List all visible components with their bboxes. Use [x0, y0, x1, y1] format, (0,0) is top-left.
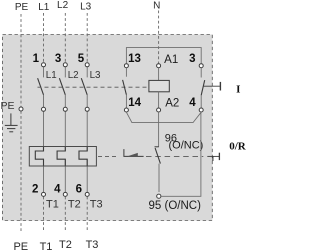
svg-text:A1: A1 [164, 54, 178, 66]
svg-text:4: 4 [54, 184, 61, 196]
overload heater element pole 1 [35, 147, 43, 166]
svg-text:L3: L3 [90, 70, 101, 81]
svg-text:L3: L3 [80, 2, 92, 13]
terminal circle 13 [124, 64, 128, 68]
wire T1 dashed tail [43, 197, 45, 232]
NC contact fixed hook [155, 146, 159, 148]
svg-text:3: 3 [189, 53, 195, 65]
terminal circle 4 (bottom) [63, 192, 67, 196]
terminal circle 3 (top) [63, 63, 67, 67]
breaker pole 3 wires [86, 67, 88, 192]
terminal circle 14 [124, 108, 128, 112]
contact 3-4 wires [200, 68, 202, 78]
junction circle pole2 [63, 107, 67, 111]
NC contact blade 95-96 [155, 148, 160, 164]
overload heater element pole 3 [79, 147, 87, 166]
coil U1 A1-A2 [158, 68, 160, 81]
svg-text:6: 6 [76, 184, 82, 196]
breaker pole 2 wires [64, 67, 66, 192]
wire 95 to contact 4 (L shape) [161, 112, 201, 196]
trip latch symbol [124, 149, 144, 156]
svg-text:5: 5 [78, 53, 85, 65]
junction circle pole1 [42, 107, 46, 111]
svg-text:0/R: 0/R [229, 140, 246, 152]
terminal circle A2 [157, 108, 161, 112]
svg-text:14: 14 [128, 97, 141, 109]
overload relay F1 box [29, 147, 96, 167]
ON actuator (I) link [204, 85, 220, 87]
terminal circle PE [19, 107, 23, 111]
svg-text:3: 3 [55, 53, 61, 65]
junction circle pole3 [85, 107, 89, 111]
terminal circle 4 [199, 108, 203, 112]
svg-text:T2: T2 [68, 198, 81, 210]
aux contact 13-14 wires [125, 68, 127, 77]
terminal circle A1 [157, 64, 161, 68]
svg-text:T1: T1 [40, 241, 53, 251]
terminal circle 95 [157, 194, 161, 198]
trip linkage dashed to NC contact [146, 155, 203, 157]
contactor bottom bus [126, 112, 201, 122]
terminal circle 1 (top) [42, 63, 46, 67]
OFF/RESET actuator link [207, 155, 219, 157]
aux contact 13-14 blade [123, 80, 127, 95]
contact 3-4 blade [201, 80, 205, 95]
svg-text:T2: T2 [59, 239, 72, 251]
svg-text:PE: PE [15, 2, 29, 13]
svg-text:(O/NC): (O/NC) [169, 139, 204, 151]
svg-text:13: 13 [128, 53, 141, 65]
wire L1 dashed drop [43, 13, 45, 63]
wire A2 down to NC contact [158, 112, 160, 147]
svg-text:L2: L2 [57, 0, 69, 11]
svg-text:A2: A2 [165, 98, 179, 110]
svg-text:2: 2 [32, 184, 38, 196]
breaker pole 1 wires [43, 67, 45, 192]
svg-text:T3: T3 [90, 198, 103, 210]
contact blade pole 1 [38, 78, 44, 95]
wire L3 dashed drop [86, 13, 88, 63]
trip latch wedge [128, 153, 138, 156]
wire N dashed drop [158, 11, 160, 64]
contactor top bus 13-A1-3 [126, 48, 201, 64]
svg-text:L1: L1 [46, 70, 57, 81]
overload heater element pole 2 [57, 147, 65, 166]
terminal circle 6 (bottom) [85, 192, 89, 196]
wire NC to 95 [158, 164, 160, 192]
svg-text:N: N [153, 1, 160, 12]
svg-text:T1: T1 [46, 198, 59, 210]
terminal circle 3 [199, 64, 203, 68]
wire L2 dashed drop [64, 13, 66, 63]
contact blade pole 3 [81, 78, 87, 95]
wire T3 dashed tail [86, 197, 88, 232]
svg-text:L1: L1 [38, 2, 50, 13]
svg-text:PE: PE [13, 241, 28, 251]
contact blade pole 2 [59, 78, 65, 95]
terminal circle 2 (bottom) [42, 192, 46, 196]
device outline (gray panel, dashed border) [3, 35, 213, 221]
mechanical link (dashed) main contacts to coil [38, 86, 149, 88]
svg-text:L2: L2 [68, 70, 79, 81]
svg-text:1: 1 [33, 53, 40, 65]
svg-text:PE: PE [1, 100, 15, 112]
svg-text:4: 4 [189, 97, 196, 109]
svg-text:T3: T3 [86, 239, 99, 251]
wire T2 dashed tail [64, 197, 66, 232]
svg-text:95 (O/NC): 95 (O/NC) [149, 200, 202, 212]
trip linkage dashed from overload box [98, 155, 118, 157]
wire PE dashed vertical [20, 14, 22, 232]
ground (earth symbol) [5, 113, 18, 131]
terminal circle 5 (top) [85, 63, 89, 67]
svg-text:I: I [236, 83, 240, 95]
